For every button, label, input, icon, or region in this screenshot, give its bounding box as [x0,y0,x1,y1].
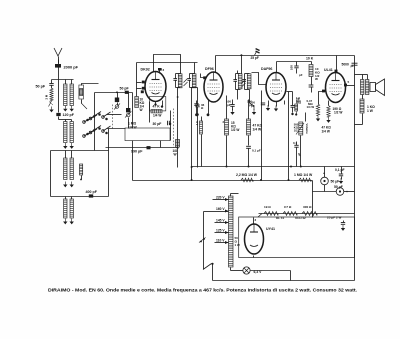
coil L6 osc MW [64,158,67,180]
wire padder right [151,147,178,149]
IF2 coupling arrows [242,80,246,84]
IF1 unit b cap [190,73,195,75]
antenna [54,48,62,56]
ground L9 [64,219,66,222]
wire padder line [51,196,109,198]
svg-text:25 pF: 25 pF [251,56,259,60]
capacitor IF1 grid [195,104,199,106]
svg-text:UL41: UL41 [324,68,333,72]
switch mains [203,264,212,270]
wire IF2b down [249,100,251,104]
svg-text:50 μF: 50 μF [331,180,340,184]
svg-text:160 V: 160 V [216,207,225,211]
wire 15K riser [226,96,228,120]
resistor 47K a [247,119,251,135]
wire box to rails [132,141,134,181]
wire coil4 top stubs [65,120,67,122]
wire osc coil2 stubs [65,197,67,200]
svg-text:1/4 W: 1/4 W [307,105,315,109]
wire V3 grid left [252,73,267,85]
resistor fil 2 [283,212,297,216]
wire IF2 feed [241,56,243,74]
IF1 unit b coil [192,74,196,88]
coil L2 SW antenna [70,84,73,106]
trimmer CV2 [128,93,130,109]
resistor fil 3 [302,212,317,216]
svg-text:DL 41: DL 41 [276,216,284,220]
lamp 6.3V [243,267,250,274]
wire gang dash link 2 [173,109,175,148]
wire osc grid line [106,147,149,149]
wire antenna bus [52,79,74,81]
wire V2 pins [208,101,210,114]
switch arm S1a [49,101,52,107]
svg-text:1/2: 1/2 [294,129,298,133]
wire AGC rail [133,180,313,182]
capacitor 2000pF antenna series [55,64,61,68]
wire 47K riser [248,100,250,120]
capacitor 990pF [147,146,151,149]
svg-text:1/2 W: 1/2 W [231,128,239,132]
resistor 2.2M [241,178,253,182]
ground L6 [64,182,66,185]
pin squares V1 [142,81,145,84]
IF2 unit b coil [247,74,251,89]
svg-text:2: 2 [222,120,224,124]
svg-text:Volume: Volume [305,124,309,135]
capacitor det out [292,92,294,106]
switch cluster S1 [83,121,86,124]
wire V1 plate to IF1 [154,55,181,74]
wire osc bracket [51,150,109,152]
wire grid line to 50pF [95,92,133,94]
tube V3 DAF96 detector [266,73,286,102]
capacitor 50pF [49,83,53,85]
svg-text:C7 Ω: C7 Ω [284,205,292,209]
capacitor 50uF b [336,188,344,196]
resistor 15K [225,119,229,135]
IF1 unit a coil [178,74,182,88]
wire 1M to box [312,181,314,218]
resistor 1/8W [176,140,180,148]
resistor 10K screen [135,97,139,108]
wire lamp left [231,270,243,272]
wire osc coil stubs [65,151,67,159]
wire filter link [313,191,337,193]
wire SW coil top [71,80,73,85]
svg-text:+: + [346,190,348,194]
svg-text:3: 3 [163,68,165,72]
svg-text:2000 pF: 2000 pF [64,64,79,69]
svg-text:120 pF: 120 pF [63,113,75,117]
svg-text:W: W [140,108,143,112]
svg-text:5000: 5000 [342,62,350,66]
trimmer CV1 [115,98,119,103]
tube V5 UY41 rectifier [245,224,264,254]
svg-text:UY41: UY41 [266,227,275,231]
svg-text:50 μF: 50 μF [334,185,343,189]
coil L7 osc SW [70,158,73,180]
svg-text:5: 5 [348,80,350,84]
wire IF1b bottom [191,88,193,181]
wire 1K down [362,114,364,125]
svg-text:100: 100 [290,65,294,70]
resistor 190 ohm [327,106,330,118]
wire IF1a bottom [177,88,179,98]
svg-text:1 K: 1 K [195,121,199,125]
ground L10 [71,219,73,222]
wire under 120pF [58,117,60,120]
svg-text:50 pF: 50 pF [120,87,130,91]
svg-text:220 V: 220 V [216,196,225,200]
tube V4 UL41 output [326,73,346,103]
resistor 47K cath [151,110,162,113]
ground V3 pins [267,105,269,108]
ground V4 cathode [328,117,330,120]
resistor 1K 1W [360,99,364,113]
wire T2 bottom [230,268,232,271]
coil L1 MW antenna [64,84,67,106]
wire V5 cathode [253,256,255,258]
resistor 10K plate [311,62,313,65]
svg-text:pF: pF [351,64,355,68]
capacitor 25pF trimmer [255,52,257,56]
wire T1 top [354,63,356,65]
svg-text:1 W: 1 W [367,109,374,113]
resistor fil 1 [264,212,278,216]
wire MW coil top [65,80,67,85]
svg-text:1/4 W: 1/4 W [253,128,262,132]
svg-text:pF: pF [227,103,231,107]
svg-text:1/2 W: 1/2 W [334,111,342,115]
svg-text:2 M: 2 M [45,94,49,99]
svg-text:125 V: 125 V [216,229,225,233]
wire 50pF drop [51,80,53,84]
wire V4 grid [319,92,326,105]
coil L4 MW osc sec [64,122,67,143]
svg-text:DIRAIMO - Mod. EN 60. Onde: DIRAIMO - Mod. EN 60. Onde medie e corte… [48,288,357,294]
wire lamp right [251,270,291,272]
wire mains left [203,212,205,270]
wire L3 top to grid line [82,84,99,86]
pin V2 grid [203,76,206,79]
svg-text:300 Ω: 300 Ω [303,205,312,209]
wire V3 pins [268,101,270,107]
wire main vert [58,80,60,113]
plug mains [199,238,206,243]
wire V4 plate [336,56,338,72]
trimmer arrow CV1 [115,105,119,109]
coil L5 SW osc sec [70,122,73,143]
svg-text:0,1 μF: 0,1 μF [335,168,345,172]
ground L2 [71,106,73,109]
wire AVC rail [192,166,355,168]
svg-text:400 pF: 400 pF [86,190,98,194]
svg-text:1/4 W: 1/4 W [128,126,137,130]
svg-text:W: W [174,153,177,157]
wire 30pF riser [170,111,172,141]
svg-text:DAF96: DAF96 [261,67,272,71]
wire V1 screen left [137,62,198,64]
wire top B+ bus [216,55,355,57]
capacitor 50pF grid [125,91,129,94]
IF2 unit a coil [238,74,242,89]
ground L1 [64,106,66,109]
svg-text:DF96: DF96 [205,67,214,71]
node grid junction [116,91,118,93]
box rectifier [239,217,355,258]
wire 10K down [311,77,313,85]
wire B+ rail right [354,56,356,281]
svg-text:25 μF 2 W: 25 μF 2 W [327,216,342,220]
resistor R leak [50,88,53,101]
capacitor coupling [309,84,314,86]
wire L3 bottom [81,100,83,104]
svg-text:2,2 MΩ 1/4 W: 2,2 MΩ 1/4 W [236,173,258,177]
svg-text:pF: pF [251,104,255,108]
wire gang dash link [112,105,114,129]
svg-text:1 W: 1 W [235,243,241,247]
resistor 1M [299,178,311,182]
svg-text:UCH 42: UCH 42 [295,216,306,220]
filament chain wire [259,213,355,215]
wire V3 left pin down [261,91,263,181]
transformer T1 output [361,80,364,95]
wire grid leak drop [132,93,134,129]
wire resistor down [177,148,179,168]
resistor V4 grid leak [316,104,319,116]
ground L7 [71,182,73,185]
svg-text:DK92: DK92 [141,67,150,71]
capacitor V2 bypass [196,101,198,104]
capacitor 100pF det [261,102,265,104]
wire gang drop [94,93,96,114]
autotransformer T2 [229,196,234,267]
IF2 unit b cap [245,73,250,75]
svg-text:50 pF: 50 pF [36,84,46,88]
svg-text:1/4 W: 1/4 W [153,114,161,118]
wire bottom bus [213,280,355,282]
IF1 coupling arrows [184,79,188,83]
ground L5 [71,143,73,146]
svg-text:110 V: 110 V [216,239,225,243]
capacitor 400pF padder [89,194,93,197]
wire V1 pins down [149,102,151,123]
wire volume line [287,91,293,93]
svg-text:MΩ: MΩ [296,100,302,104]
wire V3 plate top [276,62,278,73]
wire V4 cathode [328,101,330,106]
coil L9 [64,199,67,218]
tube V1 DK92 converter [145,72,166,102]
wire IF2 bottoms [237,90,239,100]
coil L3 coupling [79,85,84,99]
svg-text:10 K: 10 K [306,57,314,61]
tube V2 DF96 IF amplifier [204,72,223,102]
wire T1 bottom [362,95,364,100]
potentiometer volume [299,122,303,135]
wire V4 side pin [346,85,355,87]
box V1 lower [125,128,170,141]
svg-text:3: 3 [255,218,257,222]
wire pot down [300,136,302,167]
IF1 unit a cap [176,73,181,75]
pin cap V1 [158,68,161,71]
speaker LS1 [370,83,376,92]
wire V5 plate [253,218,255,225]
svg-text:W: W [315,77,318,81]
svg-text:1/4 W: 1/4 W [322,129,330,133]
wire 15K down [226,136,228,167]
svg-text:19 Ω: 19 Ω [264,205,271,209]
svg-text:145 V: 145 V [216,219,225,223]
capacitor 100pF plate [296,62,298,66]
coil L8 osc coupling [80,164,83,175]
box V1 bias [150,97,166,111]
ground ant leak [51,107,53,110]
svg-text:1 MΩ 1/4 W: 1 MΩ 1/4 W [294,173,313,177]
ground L4 [64,143,66,146]
svg-text:30 pF: 30 pF [153,122,162,126]
wire T2 top feed [230,194,232,197]
coil L10 [70,199,73,218]
svg-text:pF: pF [299,73,303,77]
capacitor 120pF [56,113,60,116]
wire switch to osc box [94,114,96,151]
IF2 unit a cap [236,73,241,75]
wire 47K a down [248,136,250,146]
svg-text:0,1 μF: 0,1 μF [252,149,261,153]
capacitor 50uF a [321,177,329,185]
resistor V2 cathode [201,117,203,122]
wire IF2a cap [232,100,234,105]
